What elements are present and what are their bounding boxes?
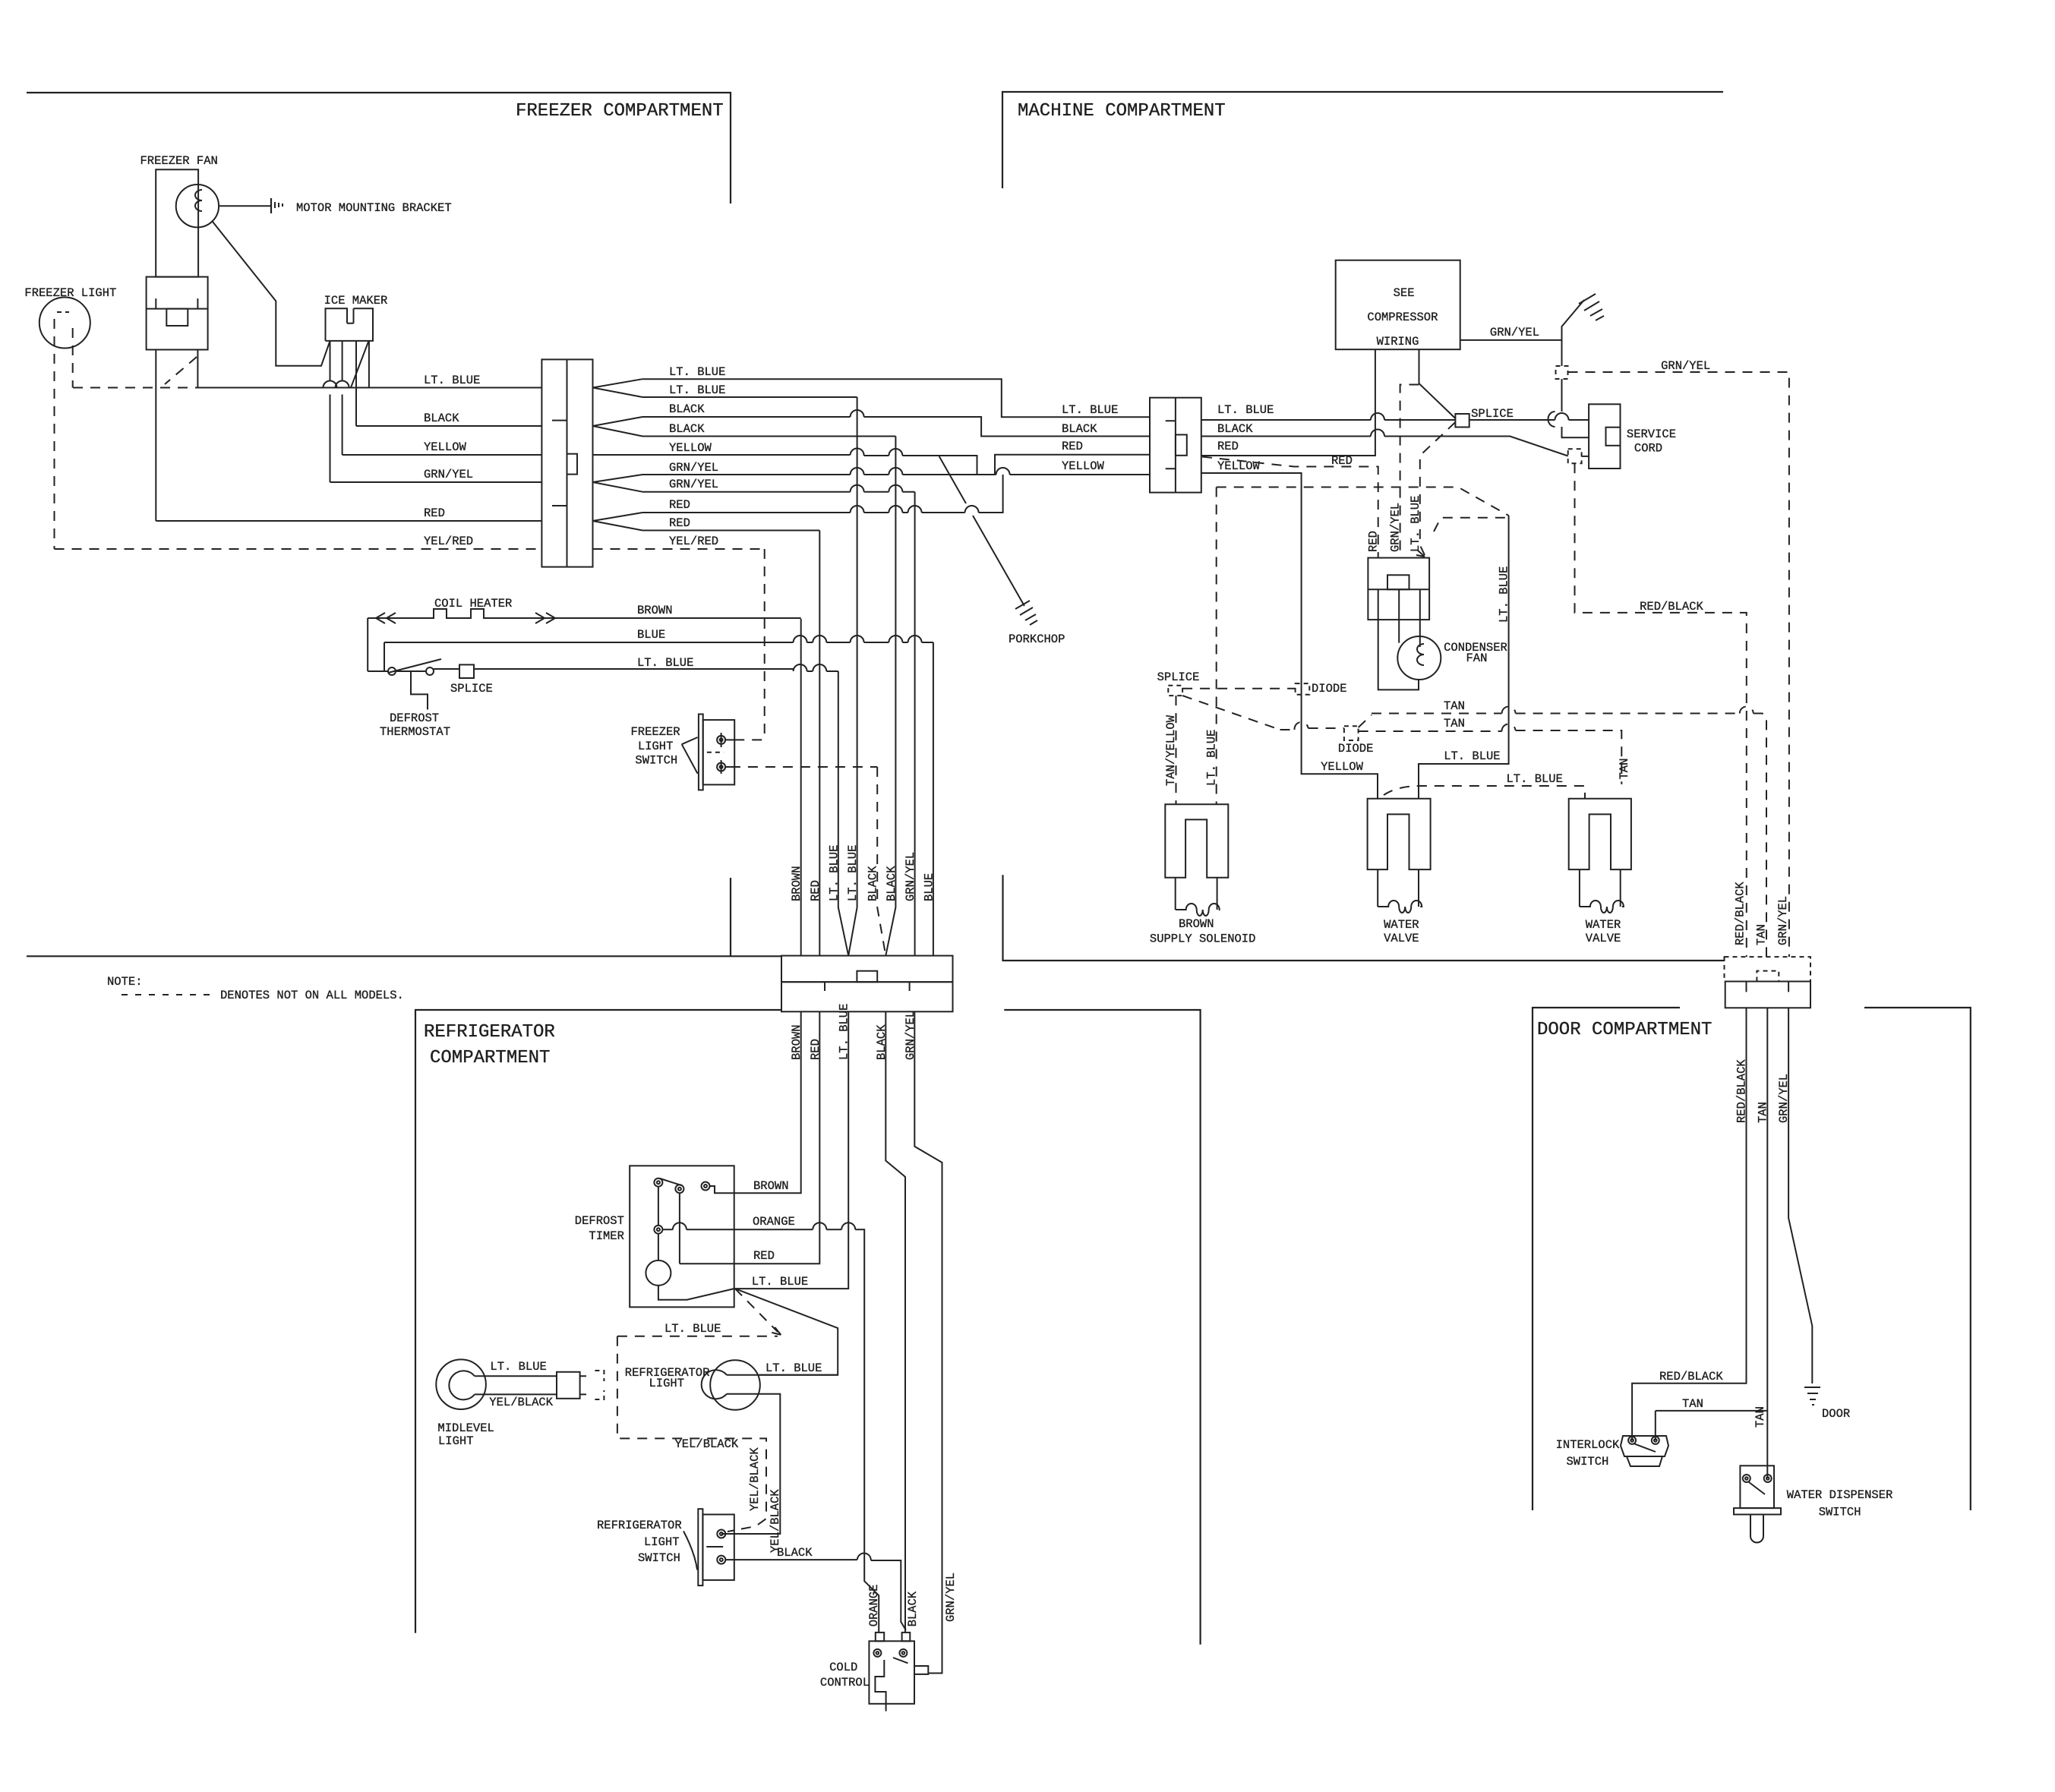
svg-text:RED: RED [669,516,690,530]
svg-text:RED: RED [1217,440,1239,453]
svg-text:YELLOW: YELLOW [424,440,467,454]
svg-text:LIGHT: LIGHT [638,740,674,753]
svg-text:FREEZER FAN: FREEZER FAN [140,154,218,168]
svg-text:LT. BLUE: LT. BLUE [669,365,725,379]
svg-text:BROWN: BROWN [753,1179,789,1193]
svg-text:GRN/YEL: GRN/YEL [1776,896,1790,945]
svg-text:SEE: SEE [1394,286,1415,300]
svg-text:RED: RED [1367,531,1381,552]
svg-text:LT. BLUE: LT. BLUE [1409,496,1422,552]
svg-text:DOOR COMPARTMENT: DOOR COMPARTMENT [1537,1020,1712,1040]
svg-text:VALVE: VALVE [1384,932,1419,945]
svg-text:YEL/RED: YEL/RED [669,535,718,548]
svg-text:SPLICE: SPLICE [1157,670,1200,684]
svg-text:BLACK: BLACK [777,1546,813,1560]
svg-text:BLACK: BLACK [885,866,898,901]
svg-text:LT. BLUE: LT. BLUE [1217,403,1274,417]
svg-text:MOTOR MOUNTING BRACKET: MOTOR MOUNTING BRACKET [296,201,452,215]
svg-text:LIGHT: LIGHT [438,1434,474,1448]
svg-text:LT. BLUE: LT. BLUE [490,1360,546,1374]
svg-text:WATER DISPENSER: WATER DISPENSER [1787,1488,1893,1502]
svg-text:FREEZER: FREEZER [631,725,680,739]
svg-text:SUPPLY SOLENOID: SUPPLY SOLENOID [1150,932,1256,946]
svg-text:DIODE: DIODE [1338,742,1374,756]
svg-text:BLACK: BLACK [906,1591,920,1626]
svg-text:GRN/YEL: GRN/YEL [1490,326,1539,339]
svg-text:THERMOSTAT: THERMOSTAT [380,725,450,739]
svg-text:YELLOW: YELLOW [1062,459,1105,473]
svg-text:BROWN: BROWN [637,604,673,617]
svg-text:LT. BLUE: LT. BLUE [664,1322,721,1336]
svg-text:BLACK: BLACK [867,866,880,901]
svg-text:RED: RED [1062,440,1083,453]
svg-text:YELLOW: YELLOW [1321,760,1364,774]
svg-text:RED/BLACK: RED/BLACK [1734,882,1747,945]
svg-text:SWITCH: SWITCH [638,1551,680,1565]
svg-text:DEFROST: DEFROST [390,711,439,725]
svg-text:CORD: CORD [1634,442,1662,456]
svg-text:COLD: COLD [829,1661,857,1674]
svg-text:ORANGE: ORANGE [753,1215,795,1229]
svg-text:DOOR: DOOR [1822,1407,1850,1421]
svg-text:REFRIGERATOR: REFRIGERATOR [597,1519,682,1532]
svg-text:INTERLOCK: INTERLOCK [1556,1438,1620,1452]
svg-text:GRN/YEL: GRN/YEL [944,1573,958,1622]
svg-text:GRN/YEL: GRN/YEL [904,852,917,901]
svg-text:GRN/YEL: GRN/YEL [1661,359,1710,373]
svg-text:BROWN: BROWN [1179,917,1214,931]
svg-text:BLUE: BLUE [637,628,665,642]
svg-text:RED: RED [669,498,690,512]
svg-text:LT. BLUE: LT. BLUE [424,374,480,387]
svg-text:TAN/YELLOW: TAN/YELLOW [1164,715,1178,786]
svg-text:TAN: TAN [1444,717,1465,730]
svg-text:RED: RED [753,1249,775,1263]
svg-text:SERVICE: SERVICE [1627,427,1676,441]
svg-text:RED/BLACK: RED/BLACK [1640,600,1703,614]
svg-text:LT. BLUE: LT. BLUE [765,1361,822,1375]
svg-text:BLUE: BLUE [922,873,936,901]
svg-text:LT. BLUE: LT. BLUE [637,656,693,670]
svg-text:ORANGE: ORANGE [867,1584,881,1626]
svg-text:TAN: TAN [1682,1397,1703,1411]
svg-text:LT. BLUE: LT. BLUE [1507,772,1563,786]
svg-text:BROWN: BROWN [790,866,803,901]
svg-text:YEL/RED: YEL/RED [424,535,473,548]
svg-text:TIMER: TIMER [589,1229,624,1243]
svg-text:VALVE: VALVE [1586,932,1621,945]
svg-text:ICE MAKER: ICE MAKER [324,294,388,308]
svg-text:MIDLEVEL: MIDLEVEL [437,1421,494,1435]
svg-text:LT. BLUE: LT. BLUE [669,383,725,397]
svg-text:YEL/BLACK: YEL/BLACK [489,1396,553,1409]
svg-text:LT. BLUE: LT. BLUE [846,845,860,901]
svg-text:RED: RED [1331,454,1353,468]
svg-text:COMPRESSOR: COMPRESSOR [1367,311,1438,324]
svg-text:YEL/BLACK: YEL/BLACK [748,1447,762,1511]
svg-text:TAN: TAN [1444,699,1465,713]
svg-text:NOTE:: NOTE: [107,975,143,989]
svg-text:SPLICE: SPLICE [1471,407,1514,421]
svg-text:RED/BLACK: RED/BLACK [1659,1370,1723,1383]
svg-text:LT. BLUE: LT. BLUE [827,845,841,901]
svg-text:FAN: FAN [1466,651,1488,665]
svg-text:WIRING: WIRING [1377,335,1419,349]
svg-text:SPLICE: SPLICE [450,682,493,696]
svg-text:CONTROL: CONTROL [820,1676,870,1689]
svg-text:SWITCH: SWITCH [635,754,677,768]
svg-text:PORKCHOP: PORKCHOP [1009,633,1065,646]
svg-text:FREEZER COMPARTMENT: FREEZER COMPARTMENT [516,101,724,121]
svg-text:TAN: TAN [1618,759,1631,780]
svg-text:DENOTES NOT ON ALL MODELS.: DENOTES NOT ON ALL MODELS. [220,989,404,1002]
svg-text:BLACK: BLACK [1062,422,1097,436]
svg-text:LIGHT: LIGHT [649,1377,685,1390]
svg-text:GRN/YEL: GRN/YEL [669,478,718,491]
svg-text:LIGHT: LIGHT [644,1535,680,1549]
svg-text:BLACK: BLACK [424,412,459,425]
svg-text:TAN: TAN [1754,1406,1767,1428]
svg-text:LT. BLUE: LT. BLUE [1205,730,1219,786]
svg-text:YELLOW: YELLOW [669,441,712,455]
svg-text:DIODE: DIODE [1312,682,1347,696]
svg-text:WATER: WATER [1384,918,1419,932]
svg-text:BLACK: BLACK [669,402,705,416]
svg-text:GRN/YEL: GRN/YEL [424,468,473,481]
svg-text:RED: RED [809,880,822,901]
svg-text:LT. BLUE: LT. BLUE [1498,566,1511,623]
svg-text:LT. BLUE: LT. BLUE [1062,403,1118,417]
svg-text:SWITCH: SWITCH [1567,1455,1609,1469]
svg-text:LT. BLUE: LT. BLUE [1444,749,1500,763]
svg-text:YEL/BLACK: YEL/BLACK [675,1437,739,1451]
svg-text:WATER: WATER [1586,918,1621,932]
svg-text:BLACK: BLACK [1217,422,1253,436]
svg-text:REFRIGERATOR: REFRIGERATOR [424,1022,555,1043]
svg-text:GRN/YEL: GRN/YEL [1389,503,1403,552]
svg-text:DEFROST: DEFROST [575,1214,624,1228]
svg-text:MACHINE COMPARTMENT: MACHINE COMPARTMENT [1018,101,1226,121]
svg-text:YELLOW: YELLOW [1217,459,1261,473]
svg-text:COMPARTMENT: COMPARTMENT [430,1048,550,1068]
svg-text:SWITCH: SWITCH [1819,1506,1861,1519]
svg-text:GRN/YEL: GRN/YEL [669,461,718,475]
svg-text:RED: RED [424,506,445,520]
svg-text:YEL/BLACK: YEL/BLACK [769,1489,782,1553]
svg-text:BLACK: BLACK [669,422,705,436]
svg-text:TAN: TAN [1754,924,1768,945]
svg-text:LT. BLUE: LT. BLUE [752,1275,808,1289]
